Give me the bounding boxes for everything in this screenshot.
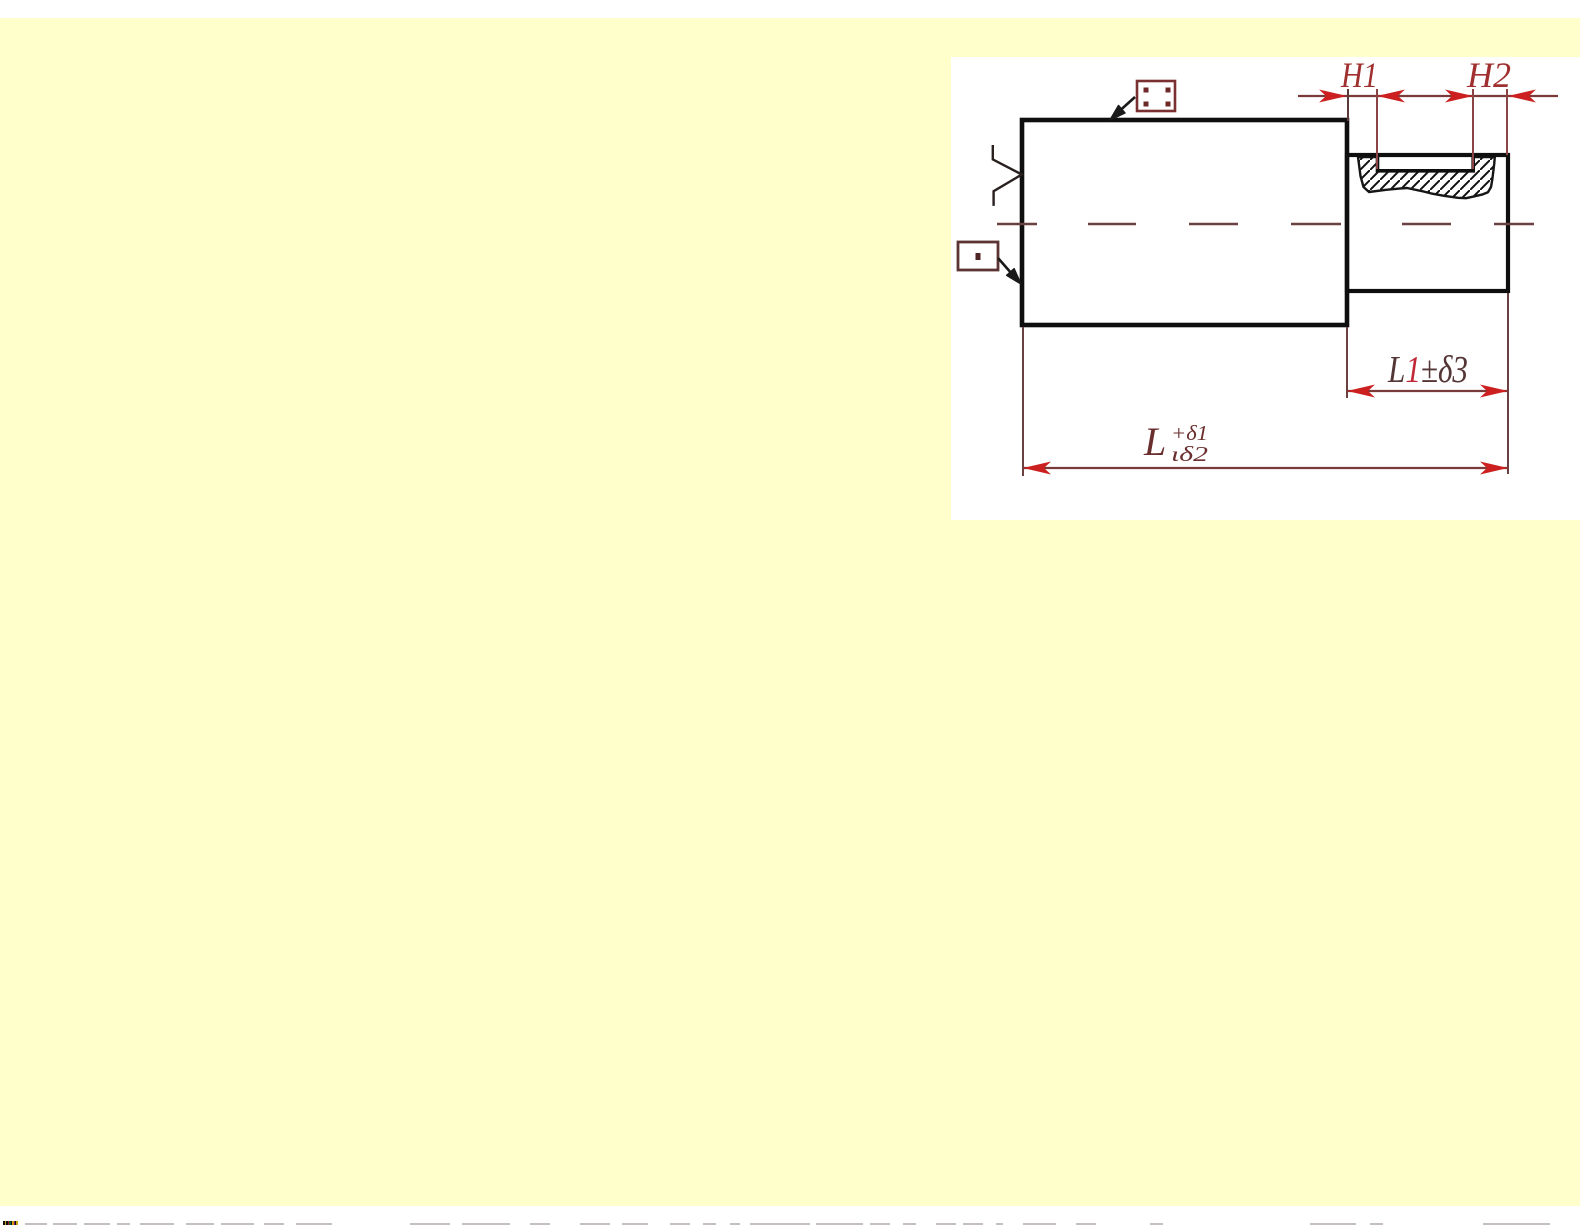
L1 arrow pointing right xyxy=(1480,385,1508,398)
extension line at keyway right x1473 xyxy=(1472,89,1474,169)
leader arrowhead at left edge xyxy=(1007,269,1021,284)
extension line at right face x1507 xyxy=(1506,89,1508,155)
L extension line left xyxy=(1022,327,1024,476)
svg-text:ιδ2: ιδ2 xyxy=(1171,442,1209,466)
extension line at shoulder x1348 xyxy=(1347,89,1349,121)
bottom clipped text row xyxy=(0,1206,1585,1225)
leader arrowhead at top edge xyxy=(1110,106,1125,121)
single dot xyxy=(976,253,981,260)
H2 arrow pointing right xyxy=(1445,90,1473,103)
svg-text:H1: H1 xyxy=(1340,55,1378,95)
L arrow pointing right xyxy=(1480,462,1508,475)
extension line at keyway left x1377 xyxy=(1376,89,1378,169)
svg-text:L1±δ3: L1±δ3 xyxy=(1387,349,1468,391)
svg-text:L: L xyxy=(1143,419,1166,464)
datum frame with single dot xyxy=(958,242,998,270)
L1 extension line left xyxy=(1346,327,1348,398)
svg-text:H2: H2 xyxy=(1466,55,1511,95)
top dimension line xyxy=(1298,95,1558,97)
keyway slot xyxy=(1378,154,1474,171)
colored list icon xyxy=(3,1221,18,1225)
leader from single-dot frame xyxy=(998,258,1012,274)
dot 2 xyxy=(1166,88,1171,93)
L dimension line xyxy=(1023,467,1508,469)
leader from four-dot frame xyxy=(1115,97,1135,115)
L1 dimension line xyxy=(1347,390,1508,392)
L1 / L extension line right xyxy=(1507,293,1509,474)
H1 arrow pointing left xyxy=(1377,90,1405,103)
hatched broken-out section xyxy=(1358,157,1495,198)
L arrow pointing left xyxy=(1023,462,1051,475)
surface mark on left face xyxy=(993,145,1022,206)
H1 arrow pointing right xyxy=(1319,90,1347,103)
centerline dash 5 xyxy=(1402,223,1451,226)
centerline dash 1 xyxy=(997,223,1037,226)
white image box xyxy=(951,57,1581,520)
L1 arrow pointing left xyxy=(1347,385,1375,398)
datum target frame with four dots xyxy=(1137,81,1175,111)
centerline dash 4 xyxy=(1291,223,1341,226)
dot 4 xyxy=(1166,102,1171,107)
clipped caption text tops xyxy=(25,1223,47,1225)
centerline dash 6 xyxy=(1494,223,1534,226)
dot 1 xyxy=(1144,88,1149,93)
H2 arrow pointing left xyxy=(1508,90,1536,103)
small step cylinder outline xyxy=(1347,155,1508,291)
centerline dash 3 xyxy=(1189,223,1238,226)
big cylinder outline xyxy=(1022,120,1347,325)
centerline dash 2 xyxy=(1088,223,1136,226)
dot 3 xyxy=(1144,102,1149,107)
